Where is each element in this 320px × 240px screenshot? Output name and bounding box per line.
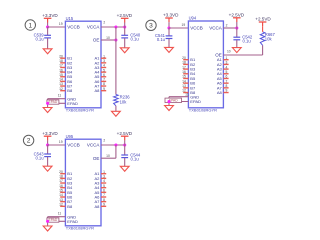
pin 3 A2 — [94, 59, 106, 65]
svg-text:1: 1 — [28, 22, 32, 29]
pin 4 A3 — [217, 65, 229, 71]
svg-text:5: 5 — [103, 68, 105, 72]
wire +2.5VD to junction — [124, 140, 126, 145]
junction — [123, 143, 126, 146]
svg-text:+3.3VD: +3.3VD — [42, 131, 58, 136]
capacitor C543 — [34, 151, 51, 160]
wire +3.3VD to junction — [168, 22, 170, 28]
svg-text:EPAD: EPAD — [49, 218, 58, 222]
wire to pin 19 VCCB — [169, 27, 188, 29]
pin 9 A8 — [217, 89, 229, 95]
pin 15 B5 — [182, 75, 196, 81]
net label EPAD — [47, 100, 59, 104]
svg-text:1: 1 — [103, 54, 105, 58]
svg-text:10k: 10k — [265, 37, 273, 42]
svg-text:0.1u: 0.1u — [35, 37, 44, 42]
pin 12 B8 — [59, 203, 73, 209]
pin 12 B8 — [59, 87, 73, 93]
wire C544 to ground — [124, 158, 126, 166]
svg-text:0.1u: 0.1u — [35, 155, 44, 160]
pin 5 A4 — [94, 184, 106, 190]
svg-text:12: 12 — [59, 203, 63, 207]
pin 8 A7 — [217, 84, 229, 90]
junction — [235, 26, 238, 29]
wire C543 to ground — [47, 157, 49, 166]
ground — [165, 47, 174, 52]
ground — [43, 166, 52, 171]
svg-text:6: 6 — [225, 75, 227, 79]
svg-text:U95: U95 — [66, 134, 74, 139]
pin 13 B7 — [59, 82, 73, 88]
capacitor C540 — [121, 33, 141, 42]
IC U15 TXB0108 — [65, 21, 101, 108]
pin 7 A6 — [94, 78, 106, 84]
svg-text:10: 10 — [106, 154, 110, 158]
svg-text:20: 20 — [182, 56, 186, 60]
junction — [114, 25, 117, 28]
svg-text:4: 4 — [103, 179, 105, 183]
svg-text:18: 18 — [59, 175, 63, 179]
svg-text:0.1u: 0.1u — [131, 156, 140, 161]
section marker 2 — [23, 135, 33, 145]
wire +3.3VD to junction — [47, 23, 49, 28]
wire to pin 19 VCCB — [48, 26, 66, 28]
svg-text:4: 4 — [103, 64, 105, 68]
svg-text:EPAD: EPAD — [67, 101, 78, 106]
wire junction to C542 — [236, 28, 238, 37]
wire pin 2 VCCA to +2.5VD — [101, 144, 125, 146]
ground — [165, 106, 174, 111]
svg-text:17: 17 — [182, 65, 186, 69]
svg-text:2: 2 — [226, 23, 228, 27]
pin 17 B3 — [59, 64, 73, 70]
svg-text:17: 17 — [59, 64, 63, 68]
pin 13 B7 — [182, 84, 196, 90]
svg-text:VCCB: VCCB — [67, 143, 80, 148]
svg-text:6: 6 — [103, 189, 105, 193]
svg-text:11: 11 — [185, 92, 189, 96]
wire pin 11 GND — [169, 96, 188, 98]
wire junction to C541 — [168, 28, 170, 36]
wire OE net vertical to R236 — [115, 27, 117, 95]
svg-text:14: 14 — [182, 79, 186, 83]
ground — [43, 226, 52, 231]
svg-text:8: 8 — [103, 82, 105, 86]
wire pin 2 VCCA to +2.5VD — [223, 27, 236, 29]
svg-text:15: 15 — [182, 75, 186, 79]
wire junction to C544 — [124, 145, 126, 155]
svg-text:4: 4 — [225, 65, 227, 69]
junction — [46, 25, 49, 28]
wire pin 10 OE to R667 — [223, 54, 262, 56]
svg-text:19: 19 — [59, 140, 63, 144]
svg-text:B8: B8 — [67, 88, 73, 93]
svg-text:B8: B8 — [67, 204, 73, 209]
wire EPAD pin — [169, 101, 188, 103]
pin 16 B4 — [182, 70, 196, 76]
svg-text:18: 18 — [182, 61, 186, 65]
svg-text:1: 1 — [103, 170, 105, 174]
pin 8 A7 — [94, 82, 106, 88]
power +3.3VD — [163, 13, 179, 23]
svg-text:0.1u: 0.1u — [131, 37, 140, 42]
ground — [120, 166, 129, 171]
svg-text:VCCA: VCCA — [87, 25, 100, 30]
wire R667 to OE — [262, 45, 264, 55]
pin 6 A5 — [94, 73, 106, 79]
svg-text:7: 7 — [225, 79, 227, 83]
pin 3 A2 — [94, 175, 106, 181]
junction — [123, 25, 126, 28]
svg-text:15: 15 — [59, 73, 63, 77]
pin 20 B1 — [59, 54, 73, 60]
wire +2.5VD to junction — [236, 22, 238, 28]
svg-text:VCCA: VCCA — [87, 143, 100, 148]
wire GND to ground — [47, 99, 49, 108]
junction — [46, 143, 49, 146]
wire EPAD pin — [48, 220, 66, 222]
pin 14 B6 — [182, 79, 196, 85]
pin 20 B1 — [182, 56, 196, 62]
svg-text:+3.3VD: +3.3VD — [163, 13, 179, 18]
pin 7 A6 — [217, 79, 229, 85]
svg-text:7: 7 — [103, 78, 105, 82]
ground — [120, 48, 129, 53]
svg-text:14: 14 — [59, 78, 63, 82]
svg-text:6: 6 — [103, 73, 105, 77]
svg-text:+2.5VD: +2.5VD — [117, 131, 133, 136]
pin 4 A3 — [94, 179, 106, 185]
svg-text:13: 13 — [182, 84, 186, 88]
pin 1 A1 — [217, 56, 229, 62]
pin 14 B6 — [59, 193, 73, 199]
svg-text:3: 3 — [103, 175, 105, 179]
svg-text:19: 19 — [59, 22, 63, 26]
svg-text:EPAD: EPAD — [67, 219, 78, 224]
svg-text:0.1u: 0.1u — [157, 37, 166, 42]
svg-text:A8: A8 — [94, 204, 100, 209]
svg-text:VCCA: VCCA — [209, 26, 222, 31]
pin 17 B3 — [182, 65, 196, 71]
svg-text:11: 11 — [58, 93, 62, 97]
ground — [232, 48, 241, 53]
wire GND to ground — [47, 217, 49, 226]
pin 9 A8 — [94, 203, 106, 209]
svg-text:10: 10 — [227, 50, 231, 54]
svg-text:3: 3 — [103, 59, 105, 63]
svg-text:17: 17 — [59, 179, 63, 183]
pin 20 B1 — [59, 170, 73, 176]
svg-text:15: 15 — [59, 189, 63, 193]
resistor R236 — [114, 95, 131, 106]
net label EPAD — [47, 218, 59, 222]
svg-text:2: 2 — [27, 138, 31, 145]
pin 13 B7 — [59, 198, 73, 204]
svg-text:3: 3 — [149, 23, 153, 30]
svg-text:11: 11 — [58, 211, 62, 215]
svg-text:9: 9 — [225, 89, 227, 93]
svg-text:20: 20 — [59, 54, 63, 58]
wire pin 10 OE — [101, 39, 116, 41]
IC U95 TXB0108 — [65, 139, 101, 226]
svg-text:+2.5VD: +2.5VD — [117, 13, 133, 18]
svg-text:10: 10 — [106, 36, 110, 40]
wire GND to ground — [168, 97, 170, 106]
capacitor C539 — [34, 33, 51, 42]
svg-text:U15: U15 — [66, 16, 74, 21]
svg-text:EPAD: EPAD — [49, 100, 58, 104]
svg-text:A8: A8 — [217, 90, 223, 95]
power +2.5VD — [117, 131, 133, 141]
pin 5 A4 — [94, 68, 106, 74]
svg-text:19: 19 — [182, 23, 186, 27]
pin 1 A1 — [94, 170, 106, 176]
pin 16 B4 — [59, 184, 73, 190]
resistor R667 — [260, 32, 275, 46]
ground — [43, 49, 52, 54]
pin 4 A3 — [94, 64, 106, 70]
wire junction to C543 — [47, 145, 49, 154]
junction — [46, 220, 49, 223]
power +2.5VD — [117, 13, 133, 23]
svg-text:U94: U94 — [189, 16, 197, 21]
svg-text:3: 3 — [225, 61, 227, 65]
wire junction to C540 — [124, 27, 126, 35]
net label EPAD — [165, 98, 182, 102]
svg-text:16: 16 — [59, 68, 63, 72]
ground — [43, 108, 52, 113]
svg-text:12: 12 — [59, 87, 63, 91]
svg-text:EPAD: EPAD — [190, 99, 201, 104]
pin 5 A4 — [217, 70, 229, 76]
IC U94 TXB0108 — [188, 21, 223, 108]
svg-text:9: 9 — [103, 203, 105, 207]
pin 18 B2 — [182, 61, 196, 67]
pin 7 A6 — [94, 193, 106, 199]
svg-text:+3.3VD: +3.3VD — [42, 13, 58, 18]
svg-text:A8: A8 — [94, 88, 100, 93]
section marker 1 — [25, 20, 35, 30]
wire C542 to ground — [236, 40, 238, 48]
capacitor C544 — [121, 152, 141, 161]
power +2.5VD — [229, 12, 245, 22]
pin 6 A5 — [217, 75, 229, 81]
power +3.3VD — [42, 13, 58, 23]
wire pin 10 OE — [101, 157, 116, 159]
svg-text:OE: OE — [93, 38, 100, 43]
svg-text:8: 8 — [103, 198, 105, 202]
wire C540 to ground — [124, 38, 126, 48]
wire C541 to ground — [168, 39, 170, 48]
section marker 3 — [146, 20, 156, 30]
svg-text:5: 5 — [225, 70, 227, 74]
svg-text:16: 16 — [59, 184, 63, 188]
svg-text:10k: 10k — [120, 99, 128, 104]
ground — [112, 111, 121, 116]
power +2.5VD — [255, 17, 271, 27]
wire pin 11 GND — [48, 216, 66, 218]
wire pin 11 GND — [48, 98, 66, 100]
svg-text:14: 14 — [59, 193, 63, 197]
wire junction to C539 — [47, 27, 49, 35]
capacitor C542 — [233, 35, 252, 44]
svg-text:13: 13 — [59, 82, 63, 86]
pin 16 B4 — [59, 68, 73, 74]
pin 6 A5 — [94, 189, 106, 195]
svg-text:+2.5VD: +2.5VD — [255, 17, 271, 22]
junction — [114, 38, 117, 41]
power +3.3VD — [42, 131, 58, 141]
capacitor C541 — [155, 33, 172, 42]
wire pin 2 VCCA to +2.5VD — [101, 26, 125, 28]
wire C539 to ground — [47, 38, 49, 49]
svg-text:OE: OE — [93, 156, 100, 161]
junction — [46, 102, 49, 105]
svg-text:+2.5VD: +2.5VD — [229, 12, 245, 17]
svg-text:TXB0108RGYR: TXB0108RGYR — [189, 107, 217, 112]
svg-text:5: 5 — [103, 184, 105, 188]
svg-text:2: 2 — [103, 21, 105, 25]
svg-text:8: 8 — [225, 84, 227, 88]
svg-text:9: 9 — [103, 87, 105, 91]
pin 15 B5 — [59, 189, 73, 195]
wire +2.5VD to R667 — [262, 26, 264, 32]
pin 18 B2 — [59, 59, 73, 65]
svg-text:TXB0108RGYR: TXB0108RGYR — [66, 107, 94, 112]
svg-text:2: 2 — [103, 139, 105, 143]
pin 3 A2 — [217, 61, 229, 67]
svg-text:1: 1 — [225, 56, 227, 60]
pin 15 B5 — [59, 73, 73, 79]
pin 1 A1 — [94, 54, 106, 60]
svg-text:7: 7 — [103, 193, 105, 197]
pin 17 B3 — [59, 179, 73, 185]
svg-text:VCCB: VCCB — [67, 25, 80, 30]
svg-text:16: 16 — [182, 70, 186, 74]
pin 18 B2 — [59, 175, 73, 181]
svg-text:TXB0108RGYR: TXB0108RGYR — [66, 225, 94, 230]
junction — [114, 143, 117, 146]
wire OE to VCCA junction — [115, 145, 117, 158]
junction — [167, 100, 170, 103]
svg-text:0.1u: 0.1u — [243, 39, 252, 44]
svg-text:18: 18 — [59, 59, 63, 63]
svg-text:20: 20 — [59, 170, 63, 174]
pin 12 B8 — [182, 89, 196, 95]
pin 14 B6 — [59, 78, 73, 84]
wire +2.5VD to junction — [124, 23, 126, 28]
wire +3.3VD to junction — [47, 140, 49, 145]
svg-text:VCCB: VCCB — [190, 26, 203, 31]
wire EPAD pin — [48, 102, 66, 104]
pin 9 A8 — [94, 87, 106, 93]
pin 8 A7 — [94, 198, 106, 204]
wire to pin 19 VCCB — [48, 144, 66, 146]
wire R236 to ground — [115, 106, 117, 112]
junction — [167, 26, 170, 29]
svg-text:13: 13 — [59, 198, 63, 202]
